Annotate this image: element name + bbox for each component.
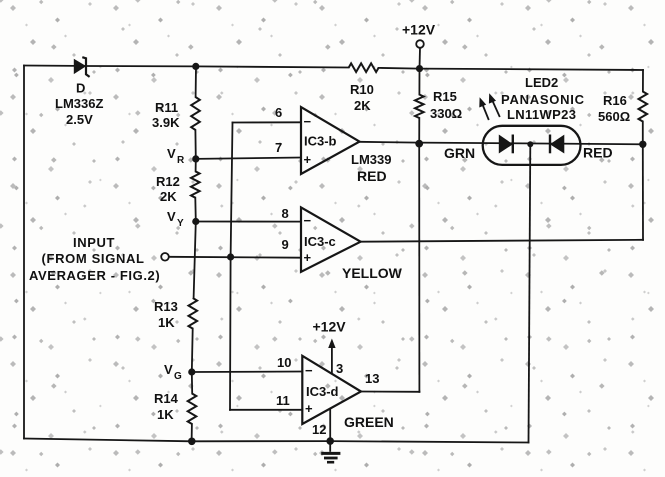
diode D (LM336Z zener) [74,57,89,77]
op-amp U IC3-c [301,207,361,271]
svg-text:IC3-c: IC3-c [304,234,336,249]
svg-text:9: 9 [282,237,289,252]
svg-text:2K: 2K [160,189,177,204]
power +12V supply arrow pin 3 [328,339,335,374]
svg-text:(FROM SIGNAL: (FROM SIGNAL [42,251,145,266]
wire divider chain [192,66,196,441]
op-amp U IC3-d [302,356,361,424]
wire R16 leads [642,70,644,144]
node input junction [227,253,234,260]
wire R15 leads [418,69,420,144]
svg-text:D: D [76,81,85,96]
svg-text:−: − [304,213,312,228]
svg-text:R14: R14 [154,391,179,406]
svg-text:GREEN: GREEN [344,414,394,430]
resistor R12 [191,171,200,197]
svg-text:LED2: LED2 [525,75,558,90]
resistor R11 [191,97,200,130]
op-amp U IC3-b [301,107,360,174]
svg-text:PANASONIC: PANASONIC [501,92,585,107]
svg-text:IC3-d: IC3-d [306,384,339,399]
resistor R16 [639,92,648,122]
wire pin 7 from VR [196,158,301,159]
node junction divider top [192,63,199,70]
svg-text:2.5V: 2.5V [66,112,93,127]
wire input to pin 9 [169,256,301,259]
node junction pin12 bottom [326,437,334,445]
wire pin 10 from VG [192,371,302,374]
svg-text:13: 13 [365,371,379,386]
wire pin 8 from VY [196,221,301,223]
svg-text:GRN: GRN [444,145,475,161]
svg-text:1K: 1K [157,407,174,422]
svg-text:G: G [174,371,182,382]
wire +12V stem [419,48,422,69]
resistor R13 [189,298,198,329]
LED2 package outline [483,126,581,165]
power +12V terminal [416,40,424,48]
svg-text:+: + [304,250,312,265]
node LED center [527,141,533,147]
wire IC3-d output [361,391,419,393]
LED emission arrow 2 [489,93,500,117]
svg-text:LM339: LM339 [351,152,391,167]
wire input branch vertical [230,123,233,410]
node junction GRN side [415,140,423,148]
svg-text:R11: R11 [155,100,178,115]
svg-text:6: 6 [275,105,282,120]
svg-text:Y: Y [177,218,184,229]
ground [321,441,340,462]
svg-text:560Ω: 560Ω [598,109,630,124]
wire LED center tap vertical [529,144,531,442]
svg-text:R13: R13 [154,299,178,314]
svg-text:7: 7 [275,140,282,155]
svg-text:INPUT: INPUT [73,235,115,250]
svg-text:10: 10 [277,355,291,370]
LED emission arrow 1 [479,97,489,120]
svg-text:12: 12 [312,422,326,437]
svg-text:2K: 2K [354,98,371,113]
svg-text:8: 8 [282,206,289,221]
wire pin 12 to ground [329,409,331,441]
svg-text:R16: R16 [603,93,627,108]
LED2 green diode [499,135,513,154]
resistor R10 [349,63,379,72]
wire IC3-c output to right edge [361,240,643,242]
svg-text:3.9K: 3.9K [152,115,180,130]
node junction divider bottom [188,438,196,446]
svg-text:LN11WP23: LN11WP23 [507,107,576,122]
svg-text:3: 3 [336,361,343,376]
wire bottom rail [24,439,529,443]
wire top rail right of R10 [379,68,643,70]
svg-text:V: V [167,209,176,224]
resistor R15 [415,95,424,119]
svg-text:YELLOW: YELLOW [342,265,403,281]
svg-text:+12V: +12V [402,22,436,38]
svg-text:R12: R12 [156,174,180,189]
svg-text:V: V [167,146,176,161]
wire pin 11 [230,409,302,411]
svg-text:+: + [304,152,312,167]
node junction +12V rail [416,65,423,72]
svg-text:−: − [305,363,313,378]
svg-text:R10: R10 [350,82,374,97]
LED2 red diode [550,135,564,154]
svg-text:AVERAGER - FIG.2): AVERAGER - FIG.2) [29,268,160,283]
node junction RED side [639,141,646,148]
input terminal [161,253,169,261]
wire pin 6 [233,121,302,123]
svg-text:−: − [304,114,312,129]
svg-text:RED: RED [357,168,387,184]
wire IC3-b output LED rail [360,142,644,145]
svg-text:LM336Z: LM336Z [55,96,103,111]
wire GRN node down to IC3-d output [418,144,420,392]
svg-text:11: 11 [276,393,290,408]
svg-text:RED: RED [583,145,613,161]
wire right edge vertical [642,144,644,240]
svg-text:R: R [177,155,185,166]
svg-text:+: + [305,401,313,416]
svg-text:330Ω: 330Ω [430,106,462,121]
resistor R14 [188,394,197,425]
svg-text:R15: R15 [433,89,457,104]
svg-text:V: V [164,362,173,377]
svg-text:1K: 1K [158,315,175,330]
svg-text:+12V: +12V [313,319,347,335]
wire top rail [24,66,349,68]
wire left edge [23,66,25,439]
svg-text:IC3-b: IC3-b [304,134,337,149]
